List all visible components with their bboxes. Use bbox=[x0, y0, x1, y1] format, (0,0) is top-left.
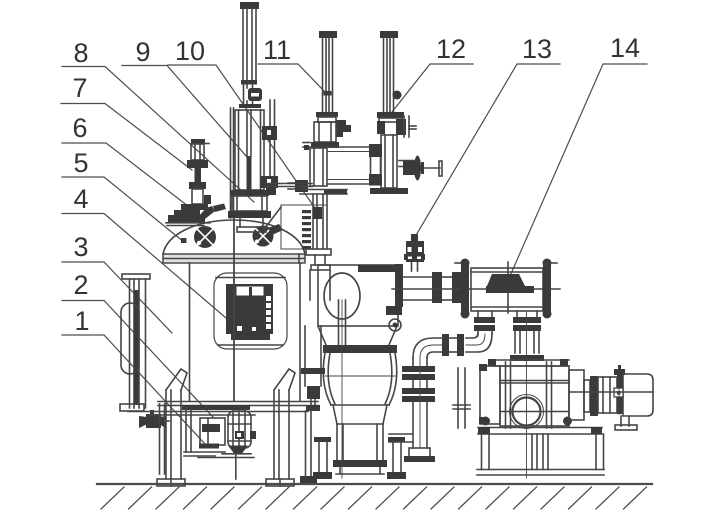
svg-text:11: 11 bbox=[263, 35, 291, 65]
svg-text:14: 14 bbox=[610, 33, 640, 63]
outlet right bbox=[395, 264, 403, 307]
filter block (dark) bbox=[226, 284, 273, 334]
discharge valve (dark) at bottom left bbox=[150, 410, 154, 415]
bottom cone bbox=[318, 326, 397, 345]
centerline bbox=[341, 300, 343, 478]
dark side fitting (10 target) bbox=[313, 207, 322, 219]
leader 4 bbox=[62, 214, 240, 331]
roots pump bbox=[479, 311, 572, 478]
funnel below motor bbox=[228, 446, 248, 454]
leader 8 bbox=[62, 67, 254, 203]
bonnet bbox=[230, 190, 269, 196]
dark cap bbox=[487, 274, 525, 286]
leader 9 bbox=[122, 66, 247, 158]
S-bend pipe A from vessel14 left nozzle bbox=[389, 311, 495, 462]
sight window bbox=[214, 273, 287, 349]
cylinder body bbox=[235, 110, 264, 190]
internal pipe bbox=[338, 300, 340, 345]
motor under vessel bbox=[228, 411, 251, 448]
gauge/ball valve bbox=[248, 88, 262, 101]
nozzle to head bbox=[239, 218, 241, 227]
roots pump inlet pipe bbox=[510, 311, 544, 361]
right support bbox=[392, 440, 394, 472]
pump base bbox=[184, 451, 225, 453]
duct box between head and column bbox=[265, 184, 327, 250]
leader 6 bbox=[62, 143, 197, 213]
leader 7 bbox=[61, 104, 192, 171]
svg-text:8: 8 bbox=[73, 38, 88, 68]
label texts bbox=[72, 33, 640, 336]
horizontal vessel 14 bbox=[455, 259, 557, 319]
bottom pipe from vessel bbox=[185, 408, 187, 452]
top cap bbox=[240, 2, 259, 9]
support stand left of pump bbox=[457, 368, 459, 428]
leader 13 bbox=[412, 64, 560, 242]
comb vent bbox=[302, 210, 311, 249]
side nozzle to vessel bbox=[295, 180, 308, 192]
thin pipe bbox=[242, 9, 244, 80]
svg-text:12: 12 bbox=[436, 34, 466, 64]
valve box below (column top) bbox=[310, 148, 327, 186]
stirrer shaft bbox=[233, 218, 235, 401]
pump head bbox=[200, 418, 225, 445]
flange under gauge bbox=[239, 104, 261, 108]
handwheel clamp right bbox=[253, 224, 284, 247]
leader 2 bbox=[62, 301, 213, 418]
left support bbox=[318, 440, 320, 472]
ground hatching bbox=[101, 487, 647, 509]
leader 10 bbox=[168, 65, 319, 214]
right leg bbox=[274, 390, 289, 479]
clamp blocks bbox=[262, 126, 277, 140]
leader lines bbox=[61, 64, 647, 444]
manifold pipe between act2 and act3 bbox=[327, 144, 442, 186]
separator drain pipe left of barrel bbox=[300, 326, 325, 483]
svg-text:5: 5 bbox=[73, 148, 88, 178]
barrel receiver vessel bbox=[313, 300, 406, 479]
actuator 3 (valve 12) bbox=[370, 31, 416, 194]
shell bbox=[189, 263, 191, 401]
separator vessel bbox=[318, 264, 403, 345]
small valve right of act3 bbox=[399, 160, 414, 162]
motor bbox=[569, 365, 653, 430]
pump base frame bbox=[477, 427, 604, 475]
main vessel (filter dryer) bbox=[120, 218, 318, 486]
centerline bbox=[526, 311, 528, 478]
guide rod left of cylinder bbox=[230, 108, 232, 218]
svg-text:1: 1 bbox=[74, 306, 89, 336]
leader 3 bbox=[62, 262, 172, 333]
flanged pipe separator to vessel 14 bbox=[392, 272, 560, 303]
big cylinder (valve 9/10) bbox=[228, 2, 278, 232]
leader 5 bbox=[62, 177, 182, 241]
valve 13 on pipe bbox=[404, 234, 425, 271]
svg-text:7: 7 bbox=[72, 73, 87, 103]
leader 1 bbox=[62, 335, 205, 444]
foot plate bbox=[300, 189, 347, 191]
middle column bbox=[302, 194, 331, 300]
leader 14 bbox=[510, 64, 647, 276]
leader 12 bbox=[392, 64, 473, 112]
dished head bbox=[163, 220, 305, 254]
svg-text:2: 2 bbox=[73, 270, 88, 300]
svg-text:3: 3 bbox=[73, 232, 88, 262]
svg-text:6: 6 bbox=[72, 113, 87, 143]
svg-text:10: 10 bbox=[175, 36, 205, 66]
svg-text:13: 13 bbox=[522, 34, 552, 64]
head flange bbox=[163, 254, 305, 263]
svg-text:4: 4 bbox=[73, 184, 88, 214]
dished end circle bbox=[324, 273, 360, 319]
actuator 2 (valve 11) bbox=[288, 31, 351, 194]
ground line bbox=[97, 483, 652, 485]
left leg bbox=[166, 390, 181, 479]
spray bar assembly on head bbox=[166, 195, 226, 226]
small drain valve right bbox=[386, 306, 402, 315]
side pipe B bbox=[269, 100, 271, 193]
leader 11 bbox=[258, 64, 325, 92]
handwheel clamp left bbox=[181, 226, 216, 248]
bottom pump: frame lines bbox=[128, 411, 308, 413]
svg-text:9: 9 bbox=[135, 37, 150, 67]
side gauge bbox=[393, 91, 402, 100]
left bracket rail bbox=[129, 279, 131, 408]
small actuator 7 bbox=[181, 139, 209, 210]
